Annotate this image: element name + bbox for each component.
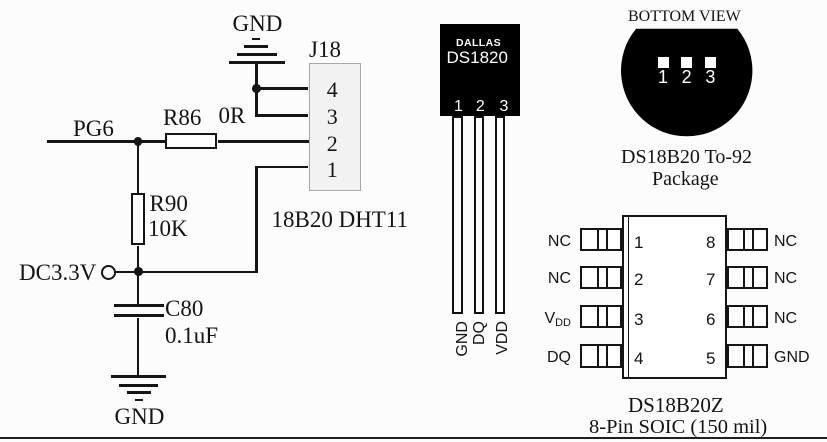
pin 2 lead bbox=[580, 266, 621, 290]
label R90 bbox=[150, 192, 188, 215]
SOIC body bbox=[622, 215, 727, 379]
label NC pin7 bbox=[774, 271, 797, 287]
label NC pin8 bbox=[774, 234, 797, 250]
resistor R90 bbox=[131, 193, 145, 245]
leg label GND bbox=[455, 321, 471, 365]
label DQ pin4 bbox=[540, 350, 571, 366]
leg 3 bbox=[495, 116, 505, 314]
wire: to pin 1 bbox=[255, 166, 308, 169]
value 0R bbox=[219, 104, 246, 127]
wire: GND down to pin3 level bbox=[255, 63, 258, 117]
pin number 1 bbox=[454, 99, 464, 115]
label NC pin2 bbox=[540, 271, 571, 287]
junction dot at PG6/R90 bbox=[134, 137, 143, 146]
SOIC inner left line bbox=[628, 215, 630, 379]
leg label VDD bbox=[495, 321, 511, 365]
bottom-view pin 3 bbox=[705, 68, 716, 86]
pin 1 lead bbox=[580, 228, 621, 252]
wire: R90 to DC3.3V node bbox=[137, 246, 140, 273]
wire: circle to pin1 branch bbox=[114, 271, 258, 274]
pin 1 bbox=[327, 159, 338, 181]
pin number 4 bbox=[634, 350, 643, 367]
node DC3.3V bbox=[19, 261, 96, 284]
label NC pin6 bbox=[774, 311, 797, 327]
GND label (top) bbox=[233, 12, 283, 35]
TO-92 bottom-view body (flat-top disc) bbox=[616, 25, 761, 140]
value 0.1uF bbox=[165, 324, 218, 347]
pin 4 lead bbox=[580, 344, 621, 368]
wire: to pin 4 bbox=[255, 87, 308, 90]
pin number 2 bbox=[634, 271, 643, 288]
pin number 1 bbox=[634, 234, 643, 251]
junction dot at DC3.3V node bbox=[134, 267, 143, 276]
label R86 bbox=[163, 106, 201, 129]
caption DS18B20 To-92 bbox=[621, 147, 752, 167]
wire: pin1 vertical branch bbox=[255, 166, 258, 273]
wire: PG6 to R86 bbox=[47, 140, 165, 143]
caption 8-Pin SOIC (150 mil) bbox=[589, 417, 767, 438]
pin number 7 bbox=[706, 271, 715, 288]
wire: C80 to ground bbox=[137, 318, 140, 377]
pin 4 bbox=[327, 79, 338, 101]
BOTTOM VIEW title bbox=[628, 9, 741, 25]
caption DS18B20Z bbox=[628, 395, 724, 416]
DS1820 text bbox=[447, 49, 508, 66]
label J18 bbox=[309, 38, 341, 61]
pin number 3 bbox=[634, 311, 643, 328]
label VDD pin3 bbox=[528, 311, 571, 329]
leg 1 bbox=[452, 116, 462, 314]
value 10K bbox=[148, 217, 188, 240]
bottom-view pin 2 bbox=[681, 68, 692, 86]
label C80 bbox=[165, 297, 203, 320]
pin number 3 bbox=[499, 99, 509, 115]
caption Package bbox=[652, 169, 719, 189]
pin 8 lead bbox=[727, 228, 768, 252]
open terminal circle bbox=[101, 265, 116, 280]
DALLAS text bbox=[456, 38, 536, 49]
wire: R86 to pin 2 bbox=[218, 140, 309, 143]
resistor R86 bbox=[165, 133, 217, 149]
pin 5 lead bbox=[727, 344, 768, 368]
pin number 2 bbox=[475, 99, 485, 115]
pin 3 lead bbox=[580, 305, 621, 329]
pin number 6 bbox=[706, 311, 715, 328]
pin 6 lead bbox=[727, 305, 768, 329]
ground symbol (top, inverted earth) bbox=[252, 38, 260, 41]
label NC pin1 bbox=[540, 234, 571, 250]
label GND pin5 bbox=[774, 350, 810, 366]
pad square 2 bbox=[681, 57, 692, 68]
wire: to pin 3 bbox=[255, 114, 308, 117]
TO-92 body DS1820 bbox=[440, 24, 520, 116]
pin 7 lead bbox=[727, 266, 768, 290]
GND label (bottom) bbox=[115, 405, 165, 428]
wire: junction down to R90 bbox=[137, 141, 140, 193]
bottom-view pin 1 bbox=[658, 68, 669, 86]
pin 3 bbox=[327, 106, 338, 128]
pin number 8 bbox=[706, 234, 715, 251]
leg 2 bbox=[474, 116, 484, 314]
pad square 3 bbox=[705, 57, 716, 68]
junction dot at GND/pin4 bbox=[252, 84, 261, 93]
wire: node down to C80 bbox=[137, 273, 140, 305]
pin 2 bbox=[327, 133, 338, 155]
ground symbol (bottom) bbox=[111, 375, 166, 378]
pad square 1 bbox=[658, 57, 669, 68]
connector J18 box bbox=[309, 63, 362, 191]
capacitor C80 plate bottom bbox=[114, 314, 165, 317]
node PG6 bbox=[73, 117, 114, 140]
bottom rule bbox=[0, 437, 827, 440]
capacitor C80 plate top bbox=[114, 304, 165, 307]
leg label DQ bbox=[472, 321, 488, 365]
pin number 5 bbox=[706, 350, 715, 367]
label 18B20 DHT11 bbox=[272, 208, 409, 231]
